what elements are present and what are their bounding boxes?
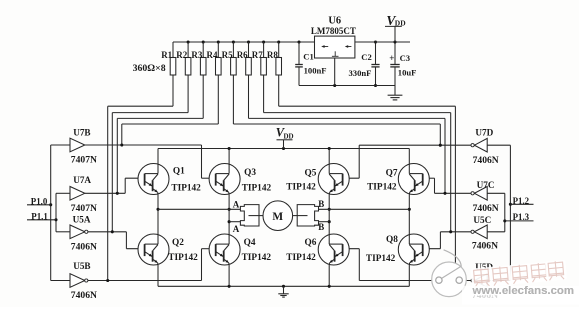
svg-text:U5B: U5B: [73, 261, 90, 271]
svg-text:R6: R6: [237, 50, 248, 60]
resistor R6: [237, 42, 252, 118]
wire input bus P1.0: [49, 145, 52, 281]
svg-text:7406N: 7406N: [71, 242, 97, 253]
port P1.3: [505, 212, 534, 222]
wire R7 to base line: [264, 113, 451, 232]
svg-text:R5: R5: [222, 50, 233, 60]
buffer U7A 7407N: [56, 175, 97, 214]
transistor Q1 TIP142: [138, 164, 201, 195]
wire resistor pull-up bus: [173, 40, 315, 43]
inverter U7D 7406N: [471, 127, 510, 165]
wire Q7 Q8 column: [408, 195, 411, 235]
power VDD supply symbol: [385, 13, 406, 42]
svg-text:360Ω×8: 360Ω×8: [133, 63, 166, 74]
svg-text:TIP142: TIP142: [242, 183, 272, 193]
svg-text:7406N: 7406N: [71, 290, 97, 301]
resistor R3: [191, 42, 206, 118]
wire collector lead Q5: [328, 149, 330, 164]
svg-text:TIP142: TIP142: [242, 253, 272, 263]
wire U5A output to Q2 base: [88, 230, 145, 248]
wire U7B output to Q3 base: [85, 143, 216, 178]
svg-text:LM7805CT: LM7805CT: [311, 26, 356, 36]
wire U5D output to Q6 base: [342, 249, 471, 282]
svg-text:U5A: U5A: [73, 214, 91, 224]
svg-text:A: A: [233, 224, 240, 234]
inverter U5C 7406N: [471, 215, 505, 252]
transistor Q3 TIP142: [209, 164, 271, 195]
wire R3 to base line: [117, 118, 203, 193]
svg-text:Q8: Q8: [386, 235, 398, 245]
svg-text:7407N: 7407N: [71, 203, 97, 214]
svg-text:R1: R1: [161, 50, 172, 60]
motor M: [263, 201, 293, 231]
connector motor B: [293, 205, 319, 226]
connector motor A: [240, 205, 263, 226]
wire input bus P1.1: [54, 193, 57, 232]
svg-text:C1: C1: [303, 51, 314, 61]
svg-text:Q5: Q5: [305, 169, 317, 179]
svg-text:7407N: 7407N: [71, 155, 97, 166]
svg-text:Q4: Q4: [244, 238, 256, 248]
svg-text:330nF: 330nF: [349, 68, 372, 78]
svg-text:7406N: 7406N: [472, 240, 498, 251]
svg-text:Q2: Q2: [172, 238, 184, 248]
wire node B lower: [319, 221, 330, 223]
resistor R7: [252, 42, 267, 113]
port P1.1: [27, 211, 56, 221]
label 360ohm x8: [133, 63, 166, 74]
resistor R5: [222, 42, 237, 124]
svg-text:www.elecfans.com: www.elecfans.com: [472, 285, 575, 297]
wire Q1 Q2 column: [156, 195, 159, 235]
power VDD bridge symbol: [276, 125, 294, 148]
svg-text:TIP142: TIP142: [286, 183, 316, 193]
wire bridge ground rail: [158, 285, 409, 288]
capacitor C1 100nF: [295, 42, 326, 86]
svg-text:7406N: 7406N: [473, 155, 499, 166]
wire emitter lead Q8: [408, 265, 410, 286]
svg-text:Q6: Q6: [305, 238, 317, 248]
svg-text:+: +: [389, 53, 394, 63]
wire node A upper: [158, 208, 240, 210]
wire emitter lead Q4: [228, 265, 230, 286]
transistor Q4 TIP142: [209, 234, 271, 265]
wire R1 to base line: [108, 106, 173, 280]
svg-text:U5C: U5C: [473, 215, 491, 225]
svg-text:A: A: [233, 199, 240, 209]
wire power ground rail: [299, 58, 395, 87]
svg-text:U7B: U7B: [73, 127, 90, 137]
svg-text:U7C: U7C: [477, 180, 495, 190]
resistor R2: [176, 42, 191, 113]
watermark elecfans logo and text: [432, 250, 579, 305]
wire R2 to base line: [112, 113, 188, 232]
wire Q3 Q4 column: [228, 195, 231, 235]
wire Q5 Q6 column: [328, 195, 331, 235]
inverter U5D 7406N: [471, 262, 510, 301]
svg-text:R2: R2: [176, 50, 187, 60]
wire regulator output rail: [355, 40, 410, 43]
capacitor C2 330nF: [349, 40, 380, 87]
svg-text:TIP142: TIP142: [171, 184, 201, 194]
svg-text:100nF: 100nF: [304, 66, 327, 76]
wire U7A output to Q1 base: [85, 178, 145, 195]
label node A lower: [233, 224, 240, 234]
inverter U7C 7406N: [471, 180, 505, 214]
svg-text:M: M: [272, 211, 283, 223]
wire bridge VDD rail: [158, 147, 409, 150]
svg-text:R3: R3: [191, 50, 202, 60]
svg-text:TIP142: TIP142: [367, 183, 397, 193]
wire collector lead Q3: [228, 149, 230, 164]
wire input bus P1.3: [503, 193, 506, 232]
svg-text:P1.3: P1.3: [513, 212, 530, 222]
wire emitter lead Q6: [328, 265, 330, 286]
svg-text:U7A: U7A: [73, 175, 91, 185]
wire R6 to base line: [249, 118, 446, 193]
wire node B upper: [319, 208, 410, 210]
port P1.0: [27, 196, 51, 206]
svg-text:B: B: [318, 199, 324, 209]
capacitor C3 10uF: [389, 42, 416, 86]
svg-text:P1.0: P1.0: [31, 196, 48, 206]
resistor R1: [161, 42, 176, 106]
label node B upper: [318, 199, 324, 209]
svg-text:B: B: [318, 222, 324, 232]
transistor Q8 TIP142: [366, 234, 429, 265]
inverter U5A 7406N: [56, 214, 97, 252]
svg-text:7406N: 7406N: [473, 203, 499, 214]
svg-text:TIP142: TIP142: [168, 253, 198, 263]
wire U5B output to Q4 base: [88, 249, 216, 282]
svg-text:U7D: U7D: [475, 127, 493, 137]
svg-text:10uF: 10uF: [398, 67, 417, 77]
wire R5 to base line: [233, 124, 440, 145]
label node B lower: [318, 222, 324, 232]
wire input bus P1.2: [509, 145, 512, 280]
svg-text:Q1: Q1: [173, 166, 185, 176]
port P1.2: [510, 196, 533, 206]
resistor R8: [267, 42, 282, 106]
inverter U5B 7406N: [51, 261, 97, 301]
svg-text:TIP142: TIP142: [286, 253, 316, 263]
wire U7D output to Q5 base: [342, 144, 471, 179]
wire node A lower: [229, 221, 240, 223]
transistor Q6 TIP142: [286, 234, 349, 265]
transistor Q7 TIP142: [367, 164, 429, 195]
transistor Q5 TIP142: [286, 164, 349, 195]
label node A upper: [233, 199, 240, 209]
wire emitter lead Q2: [157, 265, 159, 286]
wire collector lead Q1: [157, 149, 159, 164]
svg-text:Q3: Q3: [244, 168, 256, 178]
svg-text:P1.2: P1.2: [513, 196, 530, 206]
ground bridge: [278, 286, 288, 297]
svg-text:R4: R4: [207, 50, 218, 60]
wire R8 to base line: [279, 106, 456, 280]
wire U5C output to Q8 base: [423, 230, 472, 248]
wire U7C output to Q7 base: [423, 178, 472, 195]
buffer U7B 7407N: [51, 127, 97, 165]
transistor Q2 TIP142: [138, 234, 198, 265]
svg-text:R8: R8: [267, 50, 278, 60]
voltage regulator U6 LM7805CT: [311, 16, 356, 58]
wire collector lead Q7: [408, 149, 410, 164]
wire R4 to base line: [122, 124, 219, 145]
svg-text:C2: C2: [361, 52, 372, 62]
svg-text:Q7: Q7: [386, 169, 398, 179]
ground power section: [388, 86, 403, 100]
svg-text:R7: R7: [252, 50, 263, 60]
svg-text:P1.1: P1.1: [31, 211, 48, 221]
svg-text:TIP142: TIP142: [366, 254, 396, 264]
svg-text:C3: C3: [400, 53, 411, 63]
resistor R4: [207, 42, 222, 124]
